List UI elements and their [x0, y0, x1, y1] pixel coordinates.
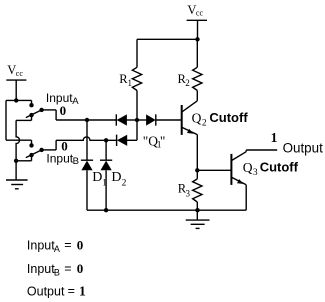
svg-text:1: 1 — [128, 78, 133, 88]
svg-text:cc: cc — [196, 9, 204, 18]
svg-text:0: 0 — [60, 103, 67, 118]
svg-text:2: 2 — [185, 78, 190, 88]
svg-text:cc: cc — [16, 69, 24, 78]
svg-text:Input: Input — [27, 239, 55, 253]
svg-text:=: = — [68, 284, 75, 298]
svg-text:1: 1 — [79, 284, 86, 299]
svg-text:0: 0 — [61, 138, 68, 153]
svg-text:Cutoff: Cutoff — [260, 160, 299, 175]
svg-text:=: = — [64, 262, 71, 276]
svg-text:2: 2 — [122, 179, 127, 189]
svg-text:B: B — [54, 267, 60, 277]
svg-text:A: A — [54, 244, 60, 254]
svg-text:2: 2 — [202, 118, 207, 128]
svg-text:0: 0 — [77, 261, 84, 276]
svg-text:": " — [160, 134, 166, 149]
svg-text:=: = — [64, 238, 71, 252]
svg-text:D: D — [92, 170, 102, 185]
svg-text:1: 1 — [271, 130, 278, 145]
svg-text:1: 1 — [102, 178, 107, 188]
svg-text:Q: Q — [192, 111, 202, 126]
svg-text:Output: Output — [27, 284, 65, 298]
svg-text:D: D — [111, 170, 121, 185]
svg-text:0: 0 — [77, 238, 84, 253]
svg-text:Input: Input — [46, 151, 73, 165]
svg-text:A: A — [72, 96, 79, 107]
svg-text:3: 3 — [253, 168, 258, 178]
svg-text:Output: Output — [283, 140, 323, 155]
svg-text:Input: Input — [27, 262, 55, 276]
svg-text:3: 3 — [186, 188, 191, 198]
svg-text:Q: Q — [243, 160, 253, 175]
svg-text:B: B — [73, 156, 79, 167]
svg-text:Cutoff: Cutoff — [209, 110, 248, 125]
